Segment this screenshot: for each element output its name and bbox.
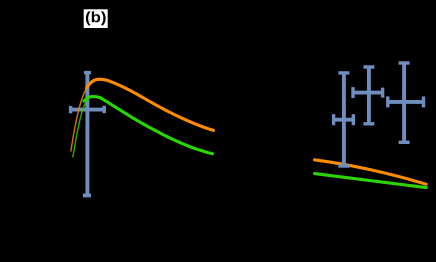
error bar right cross 2: horizontal bar xyxy=(352,91,384,95)
error bar right cross 3: top cap xyxy=(399,61,410,64)
error bar right cross 1: top cap xyxy=(338,71,349,74)
error bar left cross: right cap xyxy=(102,106,105,114)
error bar left cross: vertical bar xyxy=(85,73,89,196)
error bar right cross 3: bottom cap xyxy=(399,141,410,144)
error bar right cross 2: vertical bar xyxy=(367,67,371,124)
error bar right cross 2: left cap xyxy=(351,87,354,98)
error bar left cross: top cap xyxy=(84,71,91,74)
orange curve right segment xyxy=(315,160,427,184)
orange curve left segment: main xyxy=(87,79,214,130)
green curve left segment: thin steep rise xyxy=(73,100,87,158)
error bar right cross 3: right cap xyxy=(422,96,425,107)
error bar left cross: horizontal bar xyxy=(70,108,106,112)
error bar right cross 3: left cap xyxy=(386,96,389,107)
panel label (b): text xyxy=(86,11,106,25)
error bar right cross 1: vertical bar xyxy=(342,73,346,166)
green curve right segment xyxy=(315,174,427,188)
error bar right cross 1: right cap xyxy=(352,114,355,125)
error bar right cross 1: bottom cap xyxy=(338,164,349,167)
error bar right cross 1: horizontal bar xyxy=(333,118,355,122)
error bar right cross 2: top cap xyxy=(363,65,374,68)
panel label (b): white box xyxy=(84,9,108,28)
error bar right cross 2: bottom cap xyxy=(363,122,374,125)
orange curve left segment: thin steep rise xyxy=(71,87,88,152)
error bar right cross 3: horizontal bar xyxy=(387,100,425,104)
error bar left cross: bottom cap xyxy=(83,193,91,197)
error bar right cross 1: left cap xyxy=(332,114,335,125)
green curve left segment: main xyxy=(84,97,213,154)
error bar right cross 3: vertical bar xyxy=(402,63,406,142)
error bar right cross 2: right cap xyxy=(381,88,384,98)
error bar left cross: left cap xyxy=(69,106,72,113)
